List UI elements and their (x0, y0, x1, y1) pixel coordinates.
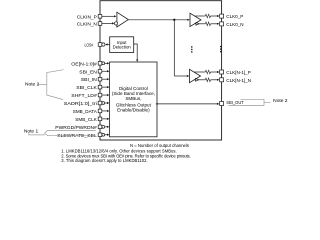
svg-text:CLK[N-1]_N: CLK[N-1]_N (226, 78, 251, 84)
svg-text:SBI_EN: SBI_EN (79, 69, 97, 75)
svg-text:N = Number of output channels: N = Number of output channels (130, 143, 189, 148)
svg-text:SMB_DATA: SMB_DATA (73, 109, 98, 115)
svg-text:CLKIN_P: CLKIN_P (77, 14, 97, 20)
svg-text:SADR[1:0]_tri: SADR[1:0]_tri (64, 101, 97, 107)
svg-text:Detection: Detection (113, 45, 132, 50)
svg-text:SMBus,: SMBus, (125, 96, 141, 101)
svg-text:SBI_IN: SBI_IN (81, 77, 97, 83)
svg-text:Enable/Disable): Enable/Disable) (117, 107, 150, 112)
svg-text:Note 2: Note 2 (25, 82, 40, 87)
svg-text:Note 2: Note 2 (273, 98, 288, 103)
svg-text:CLK[N-1]_P: CLK[N-1]_P (226, 70, 251, 76)
svg-text:OE[N-1:0]#: OE[N-1:0]# (71, 61, 97, 67)
svg-text:SBI_OUT: SBI_OUT (226, 100, 244, 105)
svg-text:Note 1: Note 1 (24, 128, 39, 133)
svg-text:PWRGD/PWRDN#: PWRGD/PWRDN# (55, 125, 97, 131)
svg-text:SBI_CLK: SBI_CLK (76, 85, 97, 91)
svg-text:LOS#: LOS# (85, 42, 94, 48)
svg-text:CLK0_N: CLK0_N (226, 22, 244, 28)
svg-text:SHFT_LD#: SHFT_LD# (71, 93, 97, 99)
svg-text:3. This diagram doesn't apply: 3. This diagram doesn't apply to LMKDB11… (61, 158, 148, 163)
svg-text:CLKIN_N: CLKIN_N (77, 22, 97, 28)
svg-text:(Side Band Interface,: (Side Band Interface, (112, 91, 155, 96)
svg-text:CLK0_P: CLK0_P (226, 14, 243, 20)
svg-text:SMB_CLK: SMB_CLK (75, 117, 97, 123)
